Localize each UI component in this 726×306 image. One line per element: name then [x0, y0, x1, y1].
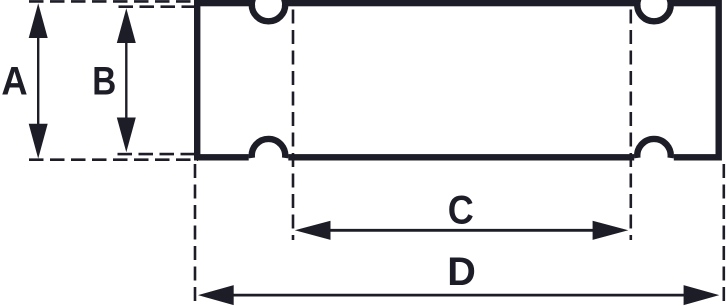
dimension arrow C: [295, 221, 629, 240]
extension dashed line vertical C-right: [629, 10, 632, 241]
extension dashed line inner-top: [119, 5, 199, 8]
extension dashed line inner-bottom: [118, 153, 199, 156]
extension dashed line outer-bottom: [29, 158, 198, 161]
dimension arrow B: [117, 8, 136, 152]
svg-text:B: B: [92, 59, 116, 104]
extension dashed line vertical C-left: [292, 10, 295, 241]
dimension arrow A: [29, 3, 48, 158]
svg-text:D: D: [447, 250, 476, 294]
notch top-right: [637, 0, 671, 21]
notch top-left: [252, 0, 286, 21]
notch bottom-left: [249, 139, 289, 161]
dimension arrow D: [198, 285, 719, 305]
extension dashed line outer-top: [29, 0, 197, 3]
notch bottom-right: [634, 139, 674, 161]
svg-text:C: C: [448, 189, 474, 233]
svg-text:A: A: [1, 59, 27, 104]
extension dashed line vertical D-right: [722, 164, 725, 306]
extension dashed line vertical D-left: [194, 164, 197, 306]
label body outline: [197, 3, 719, 157]
